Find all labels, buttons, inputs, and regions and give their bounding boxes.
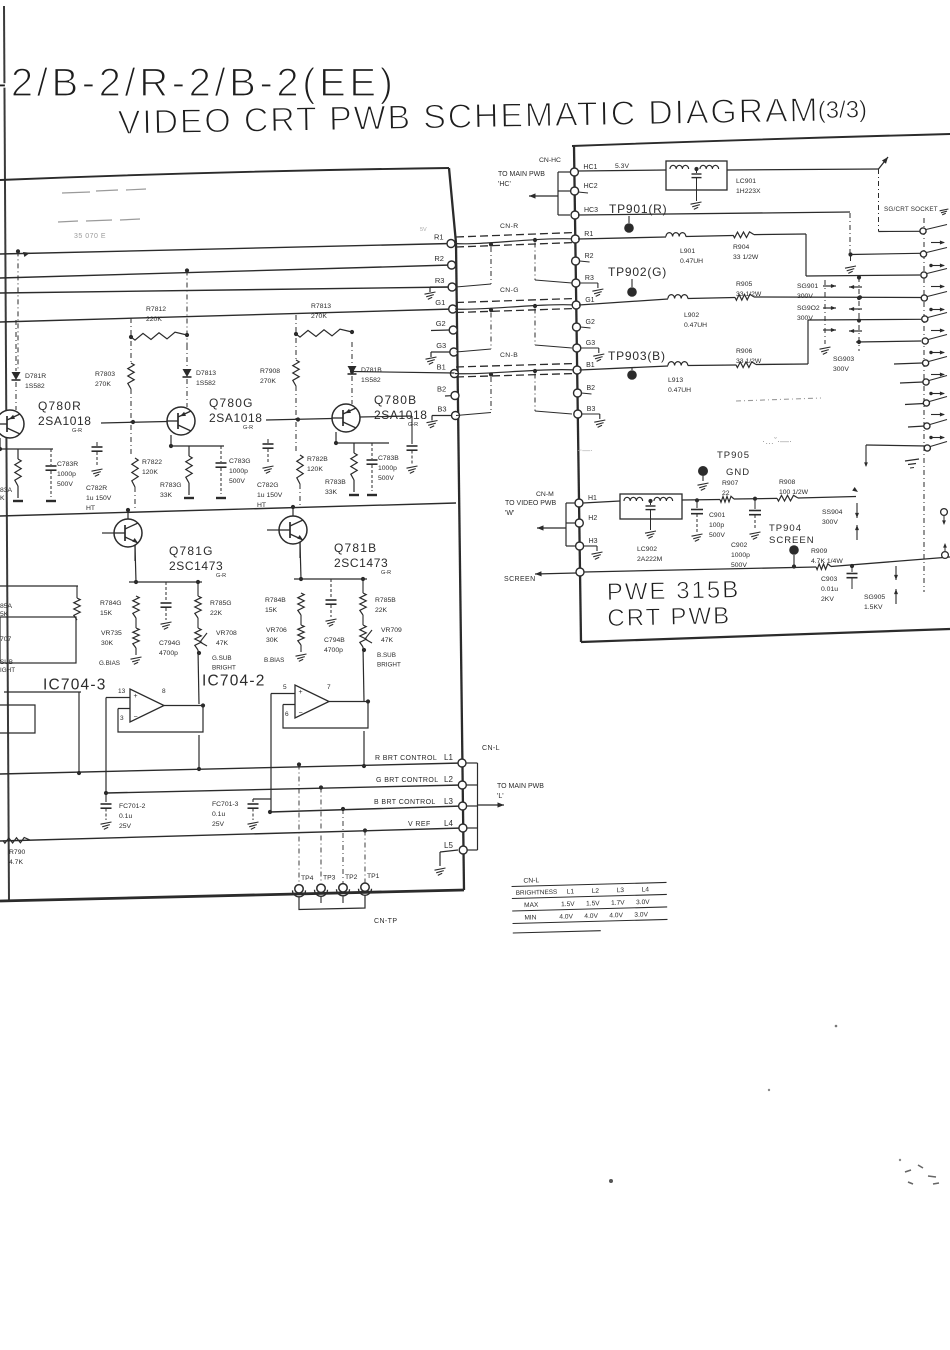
wire xyxy=(130,341,132,363)
connector pin B2 (left block) xyxy=(451,392,459,400)
wire emitter xyxy=(134,545,136,561)
test point TP3 xyxy=(317,884,325,892)
svg-text:CRT PWB: CRT PWB xyxy=(607,602,731,632)
svg-text:L902: L902 xyxy=(684,312,699,319)
wire + input xyxy=(106,697,130,699)
svg-text:R7803: R7803 xyxy=(95,371,115,378)
resistor R784G xyxy=(133,596,139,618)
connector pin H1 (right block) xyxy=(575,499,583,507)
svg-text:25V: 25V xyxy=(119,823,132,830)
svg-text:1000p: 1000p xyxy=(57,471,76,478)
svg-text:LC901: LC901 xyxy=(736,178,756,185)
socket pin 9 xyxy=(923,400,929,406)
svg-text:22K: 22K xyxy=(210,610,223,617)
ground xyxy=(184,497,194,499)
wire B BRT CONTROL bus xyxy=(270,806,463,812)
svg-text:HC3: HC3 xyxy=(584,207,598,214)
inductor L901 xyxy=(666,233,686,237)
svg-text:1S582: 1S582 xyxy=(25,383,45,390)
svg-text:VR709: VR709 xyxy=(381,627,402,634)
svg-text:SG905: SG905 xyxy=(864,594,885,601)
svg-text:C782R: C782R xyxy=(86,485,107,492)
svg-text:'W': 'W' xyxy=(505,510,514,517)
extra socket pins right xyxy=(941,509,948,516)
ground xyxy=(820,347,831,349)
svg-text:C794B: C794B xyxy=(324,637,345,644)
svg-text:300V: 300V xyxy=(822,519,838,526)
capacitor C902 xyxy=(754,499,756,509)
svg-text:R7822: R7822 xyxy=(142,459,162,466)
arrow xyxy=(931,374,944,376)
svg-text:TO MAIN PWB: TO MAIN PWB xyxy=(498,171,545,178)
svg-text:1000p: 1000p xyxy=(229,468,248,475)
svg-text:Q780R: Q780R xyxy=(38,399,82,413)
svg-text:120K: 120K xyxy=(307,466,323,473)
svg-text:1u 150V: 1u 150V xyxy=(257,492,283,499)
wire + input vertical xyxy=(270,694,272,800)
svg-text:L2: L2 xyxy=(444,775,453,784)
connector pin L2 xyxy=(458,781,466,789)
connector pin R3 (right block) xyxy=(572,279,580,287)
right block border xyxy=(572,134,950,146)
svg-text:B3: B3 xyxy=(587,406,596,413)
svg-text:G3: G3 xyxy=(436,341,446,350)
svg-text:L5: L5 xyxy=(444,841,453,850)
transistor Q780R PNP xyxy=(0,410,24,438)
capacitor C782G xyxy=(267,439,269,443)
connector pin L4 xyxy=(459,824,467,832)
svg-text:L4: L4 xyxy=(642,886,650,893)
svg-text:CN-TP: CN-TP xyxy=(374,918,397,925)
capacitor C783B xyxy=(371,443,373,459)
svg-text:C901: C901 xyxy=(709,512,725,519)
wire G1 row xyxy=(579,299,668,305)
svg-text:R909: R909 xyxy=(811,548,827,555)
svg-text:500V: 500V xyxy=(709,532,725,539)
svg-text:CN-L: CN-L xyxy=(482,745,500,752)
svg-text:R906: R906 xyxy=(736,348,752,355)
wire G BRT CONTROL bus xyxy=(106,785,462,793)
wire SCREEN row xyxy=(584,567,816,572)
wire + input vertical xyxy=(105,698,107,794)
wire emitter xyxy=(299,542,301,558)
wire bus R3 xyxy=(0,287,452,293)
socket pin 8 xyxy=(923,379,929,385)
svg-text:1u 150V: 1u 150V xyxy=(86,495,112,502)
wire xyxy=(4,691,81,693)
wire Q780R to Q780G xyxy=(101,422,167,424)
svg-text:B.SUB: B.SUB xyxy=(377,652,396,659)
ground xyxy=(216,497,226,499)
svg-text:CN-L: CN-L xyxy=(523,877,539,884)
connector pin R2 (right block) xyxy=(572,257,580,265)
svg-text:3.0V: 3.0V xyxy=(634,911,648,918)
diode D781R xyxy=(12,372,21,380)
wire bus G1 xyxy=(0,309,453,322)
arrow TO MAIN PWB L xyxy=(478,804,505,806)
svg-text:R3: R3 xyxy=(435,276,445,285)
svg-text:V REF: V REF xyxy=(408,821,431,828)
ground xyxy=(349,494,359,496)
wire row8 xyxy=(900,382,923,383)
feedback loop wire xyxy=(283,702,368,729)
svg-text:1000p: 1000p xyxy=(378,465,397,472)
svg-text:2SA1018: 2SA1018 xyxy=(209,411,263,425)
connector pin G3 (right block) xyxy=(573,344,581,352)
wire row7 xyxy=(894,363,922,364)
svg-text:BRIGHTNESS: BRIGHTNESS xyxy=(516,889,558,897)
wire jog to FC701-3 xyxy=(253,798,271,800)
arrowhead on bus R1 xyxy=(23,252,30,257)
capacitor C783R xyxy=(50,449,52,465)
wire shield drop right xyxy=(534,309,536,346)
svg-text:C783R: C783R xyxy=(57,461,78,468)
svg-text:4700p: 4700p xyxy=(159,650,178,657)
ground xyxy=(692,534,703,536)
wire bus R1 xyxy=(0,244,451,255)
test point TP1 xyxy=(361,883,369,891)
svg-text:TP904: TP904 xyxy=(769,523,802,534)
ground xyxy=(296,654,307,656)
wire HC3 row xyxy=(578,212,850,215)
svg-text:TP3: TP3 xyxy=(323,874,336,881)
svg-text:R2: R2 xyxy=(434,254,444,263)
connector pin HC1 (right block) xyxy=(570,168,578,176)
wire V REF bus xyxy=(0,828,463,841)
wire output vertical to bus xyxy=(363,731,365,766)
potentiometer VR706 xyxy=(298,625,304,645)
connector pin B1 (left block) xyxy=(450,370,458,378)
page edge line xyxy=(4,6,9,902)
diode D7813 xyxy=(183,369,192,377)
svg-text:CN-B: CN-B xyxy=(500,352,518,359)
svg-text:+: + xyxy=(134,693,138,700)
left block border xyxy=(0,168,449,180)
wire row6 xyxy=(856,341,921,342)
resistor R790 xyxy=(3,838,30,844)
wire diode feed R xyxy=(16,249,20,253)
svg-text:HT: HT xyxy=(86,505,95,512)
wire output xyxy=(164,705,203,707)
wire L5 to ground xyxy=(440,850,458,852)
svg-text:MAX: MAX xyxy=(524,902,539,909)
svg-text:Q781G: Q781G xyxy=(169,544,214,558)
svg-text:0.1u: 0.1u xyxy=(212,811,225,818)
svg-text:H1: H1 xyxy=(588,495,597,502)
socket pin 4 xyxy=(921,295,927,301)
svg-text:R1: R1 xyxy=(584,231,593,238)
svg-text:22: 22 xyxy=(722,490,730,497)
svg-text:85A: 85A xyxy=(0,603,13,610)
svg-text:2SA1018: 2SA1018 xyxy=(374,408,428,422)
test point TP901 xyxy=(624,223,634,233)
svg-text:1.7V: 1.7V xyxy=(611,900,625,907)
spark gap SG901 xyxy=(823,285,836,287)
svg-text:G-R: G-R xyxy=(72,428,82,434)
svg-text:CN-G: CN-G xyxy=(500,287,519,294)
table CN-L voltages xyxy=(511,874,667,933)
svg-text:3: 3 xyxy=(120,715,124,722)
svg-text:0.47UH: 0.47UH xyxy=(668,387,691,394)
socket pin 6 xyxy=(922,338,928,344)
ground xyxy=(263,466,274,468)
wire stub xyxy=(580,261,590,262)
svg-text:BRIGHT: BRIGHT xyxy=(377,662,401,669)
svg-text:30K: 30K xyxy=(101,640,114,647)
svg-text:L4: L4 xyxy=(444,819,453,828)
svg-text:VR706: VR706 xyxy=(266,627,287,634)
svg-text:1S582: 1S582 xyxy=(196,380,216,387)
svg-text:47K: 47K xyxy=(216,640,229,647)
arrow xyxy=(931,242,944,244)
wiper xyxy=(365,630,372,639)
connector pin H2 (right block) xyxy=(575,519,583,527)
wire + input xyxy=(271,693,295,695)
arrow TO VIDEO PWB M xyxy=(537,527,566,529)
svg-text:0.01u: 0.01u xyxy=(821,586,838,593)
wire xyxy=(15,382,17,410)
svg-text:BRIGHT: BRIGHT xyxy=(212,665,236,672)
svg-text:·‧—·: ·‧—· xyxy=(577,446,593,455)
svg-text:R7813: R7813 xyxy=(311,303,331,310)
wire xyxy=(78,692,80,774)
wire stub G2 xyxy=(431,329,450,332)
svg-text:33 1/2W: 33 1/2W xyxy=(733,254,759,261)
wire from TP2 xyxy=(342,809,344,889)
svg-text:C783B: C783B xyxy=(378,455,399,462)
connector pin B2 (right block) xyxy=(574,389,582,397)
cable CN-R xyxy=(456,233,575,238)
wire xyxy=(351,376,353,404)
ground xyxy=(750,532,761,534)
transistor Q781G NPN xyxy=(114,519,142,547)
svg-text:R785B: R785B xyxy=(375,597,396,604)
resistor R909 xyxy=(816,564,831,570)
ground xyxy=(581,347,599,349)
connector pin HC2 (right block) xyxy=(571,187,579,195)
resistor R907 xyxy=(720,496,734,502)
svg-text:IGHT: IGHT xyxy=(0,667,15,674)
wire xyxy=(198,735,200,769)
transistor Q780G PNP xyxy=(167,407,195,435)
wire shield drop right xyxy=(534,243,536,281)
socket pin 3 xyxy=(921,272,927,278)
svg-text:3.0V: 3.0V xyxy=(636,899,650,906)
transistor Q781B NPN xyxy=(279,516,307,544)
connector pin R2 (left block) xyxy=(448,261,456,269)
svg-text:L913: L913 xyxy=(668,377,683,384)
resistor R7812 xyxy=(131,332,187,340)
title VIDEO CRT PWB SCHEMATIC DIAGRAM(3/3) xyxy=(117,90,867,142)
svg-text:G-R: G-R xyxy=(243,425,253,431)
capacitor FC701-3 xyxy=(248,803,259,805)
svg-text:CN-HC: CN-HC xyxy=(539,157,561,164)
svg-text:TO MAIN PWB: TO MAIN PWB xyxy=(497,783,544,790)
ground xyxy=(407,466,418,468)
resistor R784B xyxy=(298,593,304,615)
wire corner down xyxy=(805,234,807,276)
svg-text:−: − xyxy=(134,714,138,721)
svg-text:SCREEN: SCREEN xyxy=(769,535,815,546)
svg-text:1.5KV: 1.5KV xyxy=(864,604,883,611)
connector pin SCREEN xyxy=(576,568,584,576)
ground xyxy=(92,469,103,471)
wire node xyxy=(294,578,367,580)
svg-text:1000p: 1000p xyxy=(731,552,750,559)
svg-text:270K: 270K xyxy=(260,378,276,385)
svg-text:33K: 33K xyxy=(160,492,173,499)
svg-text:HC2: HC2 xyxy=(584,183,598,190)
svg-text:1.5V: 1.5V xyxy=(561,901,575,908)
wire shield drop left xyxy=(490,377,492,413)
svg-text:35 070 E: 35 070 E xyxy=(74,233,106,240)
svg-text:R785G: R785G xyxy=(210,600,232,607)
socket pin 2 xyxy=(920,251,926,257)
svg-text:TP1: TP1 xyxy=(367,873,380,880)
svg-text:C903: C903 xyxy=(821,576,837,583)
arrow xyxy=(929,264,932,267)
inductor L902 xyxy=(668,295,688,299)
potentiometer VR708 xyxy=(195,628,201,650)
socket pin 10 xyxy=(924,423,930,429)
resistor R908 xyxy=(777,495,798,501)
arrow xyxy=(929,351,932,354)
svg-text:707: 707 xyxy=(0,636,12,643)
wire collector xyxy=(127,509,129,519)
svg-text:13: 13 xyxy=(118,688,126,695)
potentiometer VR709 xyxy=(360,625,366,647)
spark gap column xyxy=(824,280,826,344)
svg-text:L2: L2 xyxy=(592,888,600,895)
connector pin B3 (right block) xyxy=(574,410,582,418)
box R channel pot xyxy=(0,617,76,663)
svg-text:R782B: R782B xyxy=(307,456,328,463)
svg-text:TP902(G): TP902(G) xyxy=(608,265,667,279)
connector pin H3 (right block) xyxy=(576,542,584,550)
svg-text:R7908: R7908 xyxy=(260,368,280,375)
connector pin L1 xyxy=(458,759,466,767)
wire shield drop right xyxy=(534,374,536,412)
svg-text:D781B: D781B xyxy=(361,367,382,374)
svg-text:R904: R904 xyxy=(733,244,749,251)
svg-text:B3: B3 xyxy=(437,405,446,414)
wire to socket pin1 xyxy=(878,169,880,232)
svg-text:'HC': 'HC' xyxy=(498,181,511,188)
svg-text:LC902: LC902 xyxy=(637,546,657,553)
connector pin G1 (right block) xyxy=(572,301,580,309)
connector pin R1 (right block) xyxy=(571,235,579,243)
svg-text:R3: R3 xyxy=(585,275,594,282)
wire base xyxy=(267,529,279,531)
connector pin R3 (left block) xyxy=(448,283,456,291)
svg-text:C902: C902 xyxy=(731,542,747,549)
svg-text:C782G: C782G xyxy=(257,482,279,489)
svg-text:6: 6 xyxy=(285,711,289,718)
wire H1 row xyxy=(583,501,620,503)
wire stub B2 xyxy=(445,395,451,397)
arrow up xyxy=(852,487,858,492)
svg-text:H3: H3 xyxy=(589,538,598,545)
svg-text:SG9O2: SG9O2 xyxy=(797,305,820,312)
svg-text:R7812: R7812 xyxy=(146,306,166,313)
svg-text:C794G: C794G xyxy=(159,640,181,647)
svg-text:100 1/2W: 100 1/2W xyxy=(779,489,809,496)
svg-text:7: 7 xyxy=(327,684,331,691)
svg-text:VR735: VR735 xyxy=(101,630,122,637)
capacitor C901 xyxy=(696,500,698,508)
capacitor (B output) xyxy=(411,416,413,444)
ground xyxy=(696,190,698,201)
wire xyxy=(15,320,17,371)
ground xyxy=(582,413,600,415)
capacitor C794B xyxy=(330,579,332,599)
svg-text:15K: 15K xyxy=(100,610,113,617)
svg-text:R2: R2 xyxy=(585,253,594,260)
svg-text:K: K xyxy=(0,495,5,502)
ground xyxy=(46,500,56,502)
arrow xyxy=(931,330,944,332)
connector pin HC3 (right block) xyxy=(571,211,579,219)
svg-text:TP901(R): TP901(R) xyxy=(609,202,667,216)
CN-TP bracket xyxy=(299,895,365,909)
svg-text:1.5V: 1.5V xyxy=(586,900,600,907)
faint dash line xyxy=(736,398,821,401)
resistor R783B xyxy=(351,453,357,480)
svg-text:L1: L1 xyxy=(567,888,575,895)
wire from TP4 xyxy=(298,765,300,888)
svg-text:G.SUB: G.SUB xyxy=(212,655,232,662)
svg-text:TP2: TP2 xyxy=(345,874,358,881)
resistor R782B xyxy=(297,455,303,484)
svg-text:270K: 270K xyxy=(95,381,111,388)
wire shield drop left xyxy=(490,247,492,284)
svg-text:B BRT CONTROL: B BRT CONTROL xyxy=(374,799,436,806)
svg-text:2A222M: 2A222M xyxy=(637,556,663,563)
wire row9 xyxy=(905,404,924,405)
capacitor C783G xyxy=(220,446,222,462)
svg-text:R BRT CONTROL: R BRT CONTROL xyxy=(375,755,437,762)
svg-text:500V: 500V xyxy=(378,475,394,482)
svg-text:SG901: SG901 xyxy=(797,283,818,290)
connector pin G3 (left block) xyxy=(450,348,458,356)
svg-text:GND: GND xyxy=(726,467,750,478)
svg-text:300V: 300V xyxy=(797,315,813,322)
rail to Q781 collectors xyxy=(0,503,456,516)
svg-text:4.0V: 4.0V xyxy=(559,913,573,920)
op-amp IC704-2 xyxy=(295,685,329,718)
ground xyxy=(430,286,448,288)
wire stub HC2 xyxy=(578,192,588,193)
svg-text:G2: G2 xyxy=(586,319,595,326)
svg-text:25V: 25V xyxy=(212,821,225,828)
svg-text:B2: B2 xyxy=(437,385,446,394)
svg-text:SS904: SS904 xyxy=(822,509,843,516)
svg-text:1H223X: 1H223X xyxy=(736,188,761,195)
wire xyxy=(299,484,301,508)
svg-text:2SC1473: 2SC1473 xyxy=(334,556,388,570)
svg-text:R905: R905 xyxy=(736,281,752,288)
connector pin G2 (right block) xyxy=(573,323,581,331)
svg-text:FC701-3: FC701-3 xyxy=(212,801,239,808)
svg-text:1S582: 1S582 xyxy=(361,377,381,384)
svg-text:4700p: 4700p xyxy=(324,647,343,654)
wire node xyxy=(336,442,389,444)
svg-text:83A: 83A xyxy=(0,487,13,494)
svg-text:R907: R907 xyxy=(722,480,738,487)
op-amp IC704-3 xyxy=(130,689,164,722)
svg-text:5.3V: 5.3V xyxy=(615,163,629,170)
svg-text:B1: B1 xyxy=(586,362,595,369)
